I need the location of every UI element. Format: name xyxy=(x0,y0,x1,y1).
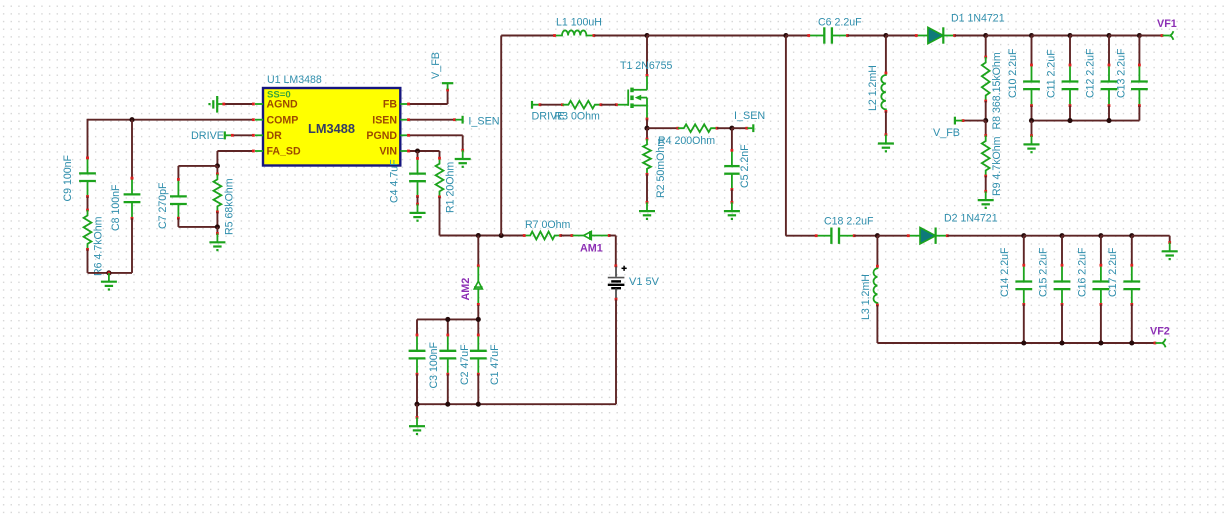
ammeter AM1 xyxy=(571,231,611,254)
capacitor C13 xyxy=(1116,48,1148,107)
wire V_FB link xyxy=(962,119,986,122)
svg-text:L2 1.2mH: L2 1.2mH xyxy=(867,65,879,111)
node R4/C5 junction xyxy=(729,126,734,131)
svg-text:C15 2.2uF: C15 2.2uF xyxy=(1037,247,1049,297)
capacitor C1 xyxy=(470,334,501,385)
wire C11 bottom xyxy=(1069,106,1071,121)
node C1 top junction xyxy=(476,317,481,322)
svg-text:FA_SD: FA_SD xyxy=(267,146,301,158)
node C11 bottom junction xyxy=(1067,118,1072,123)
wire DR net xyxy=(231,134,255,137)
wire R4-ISEN jct xyxy=(717,127,732,129)
node I_SEN terminal (left) xyxy=(455,115,499,127)
node C12 top junction xyxy=(1106,33,1111,38)
node C10 top junction xyxy=(1029,33,1034,38)
node C11 top junction xyxy=(1067,33,1072,38)
wire C11 top xyxy=(1069,36,1071,65)
wire C12-C13 xyxy=(1109,35,1139,37)
svg-text:ISEN: ISEN xyxy=(372,114,397,126)
svg-text:VIN: VIN xyxy=(379,146,397,158)
wire C14 top xyxy=(1023,236,1025,265)
svg-text:C6 2.2uF: C6 2.2uF xyxy=(818,17,862,29)
ground (R9) xyxy=(978,190,994,208)
svg-text:C3 100nF: C3 100nF xyxy=(428,341,440,388)
wire C13 bottom xyxy=(1138,106,1140,121)
capacitor C3 xyxy=(409,334,440,389)
node R5/C7 junction xyxy=(215,224,220,229)
wire FA_SD net xyxy=(217,150,254,166)
node C16 bottom junction xyxy=(1098,340,1103,345)
wire V1 bottom xyxy=(417,298,617,404)
svg-text:C16 2.2uF: C16 2.2uF xyxy=(1076,247,1088,297)
ground (L2) xyxy=(878,133,894,151)
node V_FB terminal (left) xyxy=(430,52,453,90)
svg-text:U1 LM3488: U1 LM3488 xyxy=(267,74,322,86)
wire to C6 xyxy=(786,35,808,37)
node C12 bottom junction xyxy=(1106,118,1111,123)
ground (VF1 rail) xyxy=(1024,134,1040,152)
capacitor C14 xyxy=(999,247,1032,306)
resistor R5 xyxy=(214,174,236,235)
ground (C5) xyxy=(724,201,740,219)
node bank jct C2 xyxy=(445,402,450,407)
node R8 junction xyxy=(983,33,988,38)
wire AM2 bottom xyxy=(477,305,479,319)
node C18-branch junction xyxy=(783,33,788,38)
wire D1-R8 xyxy=(955,35,986,37)
wire C7 bottom xyxy=(178,218,217,227)
wire C17 top xyxy=(1131,236,1133,265)
capacitor C11 xyxy=(1046,49,1079,107)
svg-text:AM1: AM1 xyxy=(580,242,603,254)
node main-rail junction xyxy=(499,233,504,238)
node L2 junction xyxy=(883,33,888,38)
node C14 top junction xyxy=(1021,233,1026,238)
svg-text:DRIVE: DRIVE xyxy=(191,130,224,142)
wire C12 bottom xyxy=(1108,106,1110,121)
node DRIVE terminal (right) xyxy=(532,101,565,122)
wire C16 top xyxy=(1100,236,1102,265)
wire C9-R6 xyxy=(86,197,89,212)
wire R1 bottom xyxy=(439,197,441,236)
wire C4 to gnd xyxy=(410,197,426,221)
capacitor C16 xyxy=(1076,247,1109,306)
capacitor C9 xyxy=(62,154,96,201)
svg-text:R7 0Ohm: R7 0Ohm xyxy=(525,219,571,231)
svg-text:LM3488: LM3488 xyxy=(308,121,355,136)
node VF2 terminal xyxy=(1150,326,1170,348)
node C13 top junction xyxy=(1137,33,1142,38)
inductor L1 xyxy=(553,17,602,37)
wire R1 drop xyxy=(439,151,441,158)
wire VF1 gnd rail xyxy=(1032,120,1140,122)
node FA_SD junction xyxy=(215,163,220,168)
wire COMP net xyxy=(86,118,255,159)
svg-text:VF1: VF1 xyxy=(1157,18,1177,30)
node AM2 junction xyxy=(476,233,481,238)
svg-text:C13 2.2uF: C13 2.2uF xyxy=(1116,48,1128,98)
node C17 bottom junction xyxy=(1129,340,1134,345)
U1 pin stubs xyxy=(255,104,409,151)
resistor R8 xyxy=(982,52,1003,129)
wire T1 to C18 branch xyxy=(647,35,786,37)
wire C10 gnd drop xyxy=(1031,121,1033,136)
wire source-R4 xyxy=(647,127,679,130)
node DRIVE terminal (left) xyxy=(191,130,231,142)
resistor R2 xyxy=(643,138,667,198)
resistor R7 xyxy=(523,219,571,239)
wire VF2 rail xyxy=(1024,342,1157,345)
wire C14 bottom xyxy=(1023,304,1025,343)
ground (PGND) xyxy=(455,149,471,167)
wire C16-C17 xyxy=(1101,235,1132,237)
node V_FB terminal (right) xyxy=(933,117,962,139)
wire L2-D1 xyxy=(886,35,916,37)
svg-text:C9 100nF: C9 100nF xyxy=(62,154,74,201)
wire C14-C15 xyxy=(1024,235,1062,237)
wire C4 drop xyxy=(417,151,419,158)
capacitor C17 xyxy=(1107,247,1140,306)
wire to I_SEN xyxy=(732,127,748,130)
svg-text:VF2: VF2 xyxy=(1150,326,1170,338)
svg-text:C8 100nF: C8 100nF xyxy=(110,184,122,231)
wire C7 top xyxy=(178,166,217,179)
inductor L2 xyxy=(867,36,887,113)
svg-text:R2 50mOhm: R2 50mOhm xyxy=(655,138,667,198)
capacitor C7 xyxy=(157,178,187,229)
wire R6 to gnd rail xyxy=(88,249,109,273)
wire R7 row left xyxy=(440,235,524,237)
node C17 top junction xyxy=(1129,233,1134,238)
svg-text:C7 270pF: C7 270pF xyxy=(157,182,169,229)
wire L3 bottom xyxy=(877,305,1023,343)
wire C17 bottom xyxy=(1131,304,1133,343)
resistor R1 xyxy=(436,157,457,213)
wire R9 top xyxy=(984,121,987,137)
wire DRIVE-R3 xyxy=(539,103,564,106)
diode D2 1N4721 xyxy=(907,213,998,244)
wire C15 bottom xyxy=(1061,304,1063,343)
node VF1 terminal xyxy=(1157,18,1177,40)
wire L1 to T1 xyxy=(594,35,647,37)
node C16 top junction xyxy=(1098,233,1103,238)
capacitor C5 xyxy=(724,144,751,191)
wire AM2 top xyxy=(477,236,480,268)
node COMP junction xyxy=(129,117,134,122)
inductor L3 xyxy=(860,236,879,320)
svg-text:R1 20Ohm: R1 20Ohm xyxy=(445,162,457,213)
wire C8 drop xyxy=(131,120,134,180)
svg-text:R5 68kOhm: R5 68kOhm xyxy=(224,178,236,235)
wire C15-C16 xyxy=(1062,235,1101,237)
capacitor C10 xyxy=(1007,48,1040,107)
wire C10 top xyxy=(1031,36,1033,65)
node bank jct C3 xyxy=(414,402,419,407)
node T1 drain junction xyxy=(644,33,649,38)
svg-text:C5 2.2nF: C5 2.2nF xyxy=(739,144,751,188)
wire R9 bottom xyxy=(985,176,987,191)
node bank jct C1 xyxy=(476,402,481,407)
svg-text:I_SEN: I_SEN xyxy=(734,110,765,122)
resistor R4 xyxy=(658,124,718,147)
wire cap-bank top rail xyxy=(417,319,478,334)
svg-text:D1 1N4721: D1 1N4721 xyxy=(951,13,1005,25)
svg-text:C10 2.2uF: C10 2.2uF xyxy=(1007,48,1019,98)
wire C10-C11 xyxy=(1032,35,1071,37)
ground (R5/C7) xyxy=(209,227,225,250)
wire R8 bottom xyxy=(985,101,987,121)
wire L2 bottom xyxy=(885,111,887,134)
wire FB net xyxy=(407,89,449,106)
node L3 junction xyxy=(875,233,880,238)
resistor R6 xyxy=(84,210,105,276)
wire main left rail xyxy=(501,36,554,236)
wire C8 bottom xyxy=(109,218,132,273)
resistor R9 xyxy=(982,136,1003,197)
wire PGND net xyxy=(407,134,463,150)
node C15 bottom junction xyxy=(1059,340,1064,345)
node VIN junction xyxy=(415,148,420,153)
capacitor C6 xyxy=(807,17,862,44)
wire VIN net xyxy=(407,150,439,153)
wire C16 bottom xyxy=(1100,304,1102,343)
svg-text:R3 0Ohm: R3 0Ohm xyxy=(555,110,601,122)
ground (D2 row) xyxy=(1162,241,1178,259)
transistor T1 2N6755 xyxy=(615,36,673,121)
svg-text:C14 2.2uF: C14 2.2uF xyxy=(999,247,1011,297)
capacitor C2 xyxy=(439,334,471,385)
ground (AGND pin) xyxy=(210,96,223,113)
wire cap-bank bottoms xyxy=(417,374,478,404)
capacitor C8 xyxy=(110,177,140,231)
svg-text:C18 2.2uF: C18 2.2uF xyxy=(824,216,874,228)
svg-text:C17 2.2uF: C17 2.2uF xyxy=(1107,247,1119,297)
svg-text:C12 2.2uF: C12 2.2uF xyxy=(1085,48,1097,98)
resistor R3 xyxy=(555,101,603,123)
wire C18 branch xyxy=(786,36,816,236)
svg-text:C1 47uF: C1 47uF xyxy=(489,344,501,385)
wire R7-AM1 xyxy=(561,235,572,237)
wire C12 top xyxy=(1108,36,1110,65)
wire C11-C12 xyxy=(1070,35,1109,37)
wire C15 top xyxy=(1061,236,1063,265)
svg-text:V_FB: V_FB xyxy=(933,127,960,139)
wire C10 bottom xyxy=(1031,106,1033,121)
wire C18-L3 xyxy=(854,235,877,237)
capacitor C15 xyxy=(1037,247,1070,306)
wire C6-L2 xyxy=(848,35,886,37)
ground (R2) xyxy=(639,201,655,219)
wire C13 top xyxy=(1138,36,1140,65)
svg-text:C11 2.2uF: C11 2.2uF xyxy=(1046,49,1058,98)
node T1-source junction xyxy=(644,126,649,131)
capacitor C18 xyxy=(815,216,874,244)
wire AGND xyxy=(222,103,254,106)
wire R2 bottom xyxy=(646,174,648,202)
svg-text:D2 1N4721: D2 1N4721 xyxy=(944,213,998,225)
svg-text:L3 1.2mH: L3 1.2mH xyxy=(860,274,872,320)
svg-text:AGND: AGND xyxy=(267,99,299,111)
svg-text:V_FB: V_FB xyxy=(430,52,442,79)
wire T1 source xyxy=(646,119,648,128)
svg-text:T1 2N6755: T1 2N6755 xyxy=(620,60,673,72)
op-amp U1 LM3488 body xyxy=(263,74,400,165)
battery V1 5V xyxy=(608,266,660,299)
svg-text:L1 100uH: L1 100uH xyxy=(556,17,602,29)
wire AM1 to V1 xyxy=(609,236,617,268)
svg-text:AM2: AM2 xyxy=(460,278,472,301)
ground (cap bank) xyxy=(409,404,425,434)
capacitor C4 xyxy=(389,157,426,203)
wire R5 bottom xyxy=(216,212,218,227)
svg-text:DR: DR xyxy=(267,130,283,142)
node C15 top junction xyxy=(1059,233,1064,238)
wire ISEN net xyxy=(407,118,456,121)
svg-text:R8 368.15kOhm: R8 368.15kOhm xyxy=(991,52,1003,129)
wire R5 top xyxy=(216,166,219,175)
wire D2-C14 xyxy=(947,235,1024,237)
node C2 top junction xyxy=(445,317,450,322)
svg-text:I_SEN: I_SEN xyxy=(468,115,499,127)
svg-text:R9 4.7kOhm: R9 4.7kOhm xyxy=(991,136,1003,196)
wire C17-gnd xyxy=(1132,236,1170,242)
node C10 bottom junction xyxy=(1029,118,1034,123)
capacitor C12 xyxy=(1085,48,1118,107)
svg-text:COMP: COMP xyxy=(267,114,299,126)
svg-text:R6 4.7kOhm: R6 4.7kOhm xyxy=(93,216,105,276)
wire C5 bottom xyxy=(731,190,733,202)
node V_FB junction xyxy=(983,118,988,123)
ammeter AM2 xyxy=(460,267,483,306)
svg-text:PGND: PGND xyxy=(366,130,397,142)
node gnd-rail junction xyxy=(106,270,111,275)
node C14 bottom junction xyxy=(1021,340,1026,345)
svg-text:C2 47uF: C2 47uF xyxy=(459,344,471,385)
node I_SEN terminal (right) xyxy=(734,110,765,132)
svg-text:FB: FB xyxy=(383,99,397,111)
ground (C8/R6) xyxy=(101,272,117,290)
svg-text:V1 5V: V1 5V xyxy=(629,276,660,288)
wire R3-gate xyxy=(601,104,616,106)
svg-text:C4 4.7uF: C4 4.7uF xyxy=(389,159,401,203)
wire R2 top xyxy=(646,128,649,140)
wire R8-C10 xyxy=(986,35,1032,37)
wire C5 top xyxy=(731,128,733,150)
diode D1 1N4721 xyxy=(915,13,1005,44)
wire L3-D2 xyxy=(877,235,908,237)
wire R8 top xyxy=(984,36,987,59)
wire C13-VF1 xyxy=(1139,34,1163,37)
